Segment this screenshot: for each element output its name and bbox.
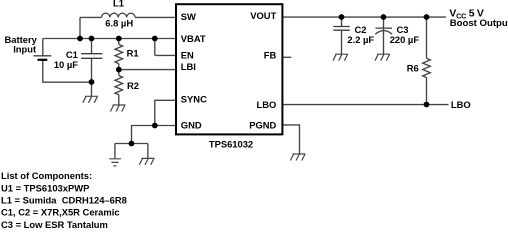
svg-text:220 µF: 220 µF bbox=[390, 34, 420, 45]
svg-text:R1: R1 bbox=[127, 47, 139, 58]
svg-text:VBAT: VBAT bbox=[181, 33, 206, 44]
svg-text:C1, C2 = X7R,X5R Ceramic: C1, C2 = X7R,X5R Ceramic bbox=[1, 207, 120, 218]
svg-text:SYNC: SYNC bbox=[181, 93, 207, 104]
svg-text:PGND: PGND bbox=[249, 120, 276, 131]
svg-text:GND: GND bbox=[181, 120, 202, 131]
svg-text:L1: L1 bbox=[113, 0, 124, 9]
svg-text:L1 = Sumida CDRH124–6R8: L1 = Sumida CDRH124–6R8 bbox=[1, 195, 127, 206]
svg-text:10 µF: 10 µF bbox=[54, 59, 78, 70]
svg-text:Input: Input bbox=[13, 44, 36, 55]
svg-text:R6: R6 bbox=[407, 63, 419, 74]
svg-text:2.2 µF: 2.2 µF bbox=[347, 34, 374, 45]
svg-text:SW: SW bbox=[181, 11, 196, 22]
svg-text:LBO: LBO bbox=[451, 99, 471, 110]
svg-text:R2: R2 bbox=[127, 80, 139, 91]
svg-text:6.8 µH: 6.8 µH bbox=[105, 18, 133, 29]
svg-text:C3 = Low ESR Tantalum: C3 = Low ESR Tantalum bbox=[1, 219, 108, 230]
svg-text:FB: FB bbox=[264, 49, 277, 60]
svg-text:LBI: LBI bbox=[181, 61, 196, 72]
svg-text:VOUT: VOUT bbox=[250, 10, 276, 21]
svg-text:U1 = TPS6103xPWP: U1 = TPS6103xPWP bbox=[1, 182, 89, 193]
svg-text:LBO: LBO bbox=[257, 99, 277, 110]
svg-text:EN: EN bbox=[181, 49, 194, 60]
svg-text:List of Components:: List of Components: bbox=[1, 170, 92, 181]
svg-text:VCC 5 V: VCC 5 V bbox=[449, 9, 484, 21]
svg-text:TPS61032: TPS61032 bbox=[209, 138, 253, 149]
